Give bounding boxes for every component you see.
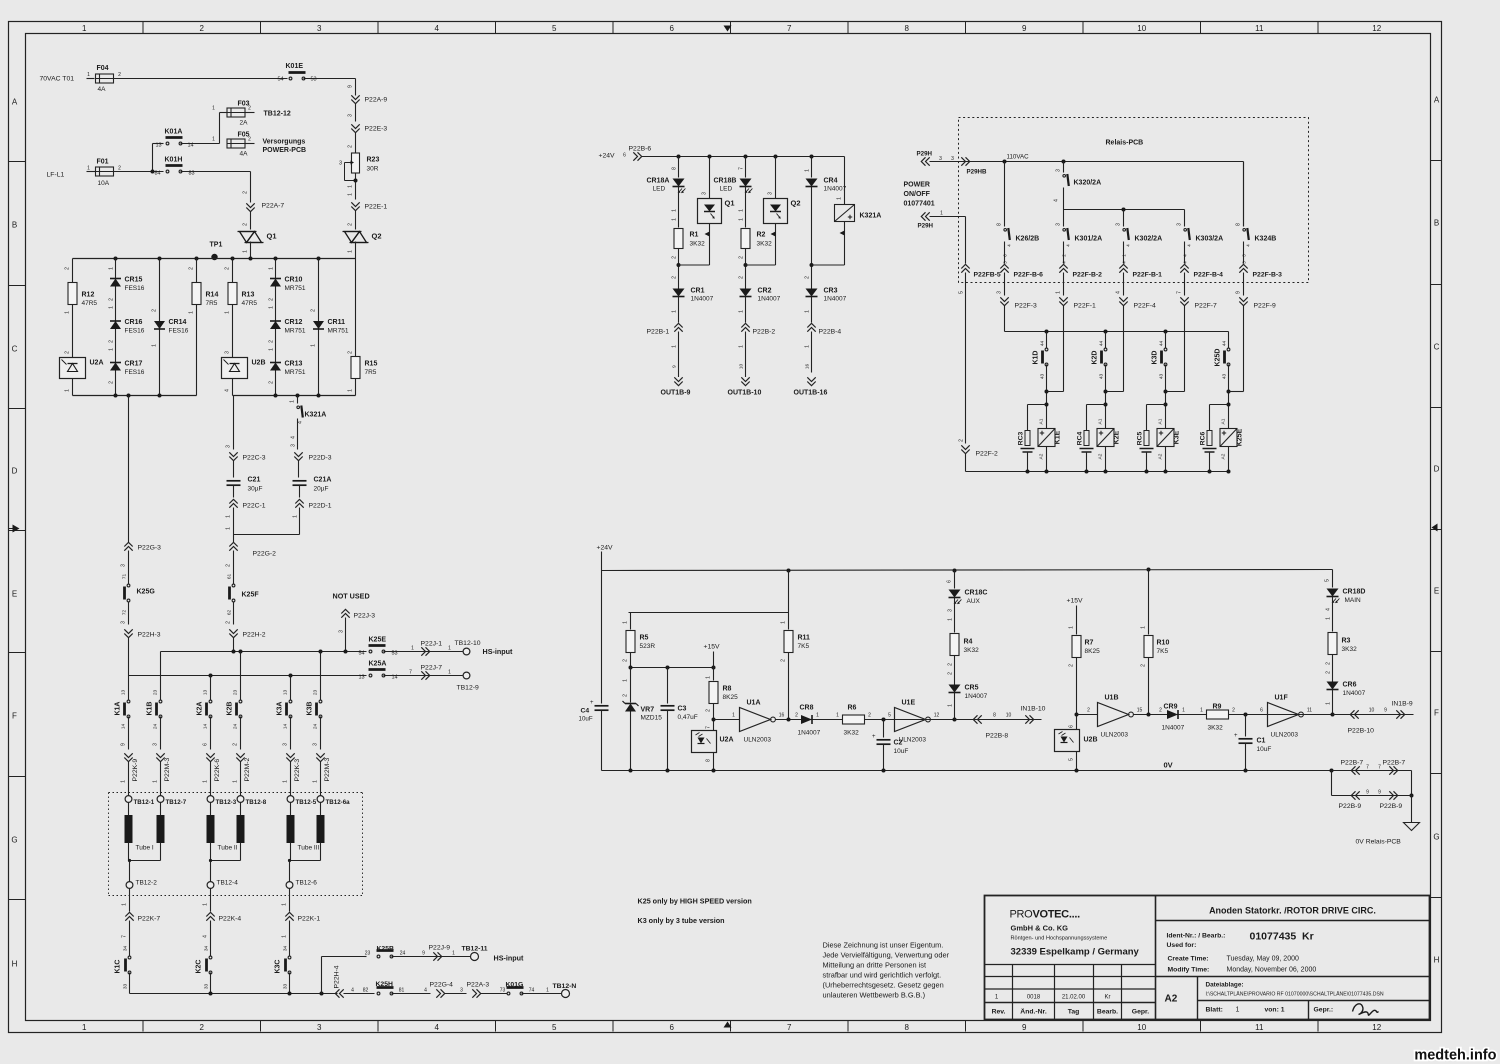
svg-text:43: 43 — [1159, 374, 1165, 380]
svg-text:CR3: CR3 — [824, 288, 838, 295]
svg-text:U1F: U1F — [1275, 695, 1289, 702]
wire riser K01A — [153, 143, 164, 145]
wire CR15 chain column — [115, 259, 117, 396]
terminal TB12-5 — [287, 796, 294, 803]
svg-text:Q1: Q1 — [725, 199, 735, 208]
wire P22F-4 down — [1123, 306, 1125, 392]
svg-text:P22F-B-2: P22F-B-2 — [1073, 272, 1103, 279]
svg-text:43: 43 — [1040, 374, 1046, 380]
svg-text:44: 44 — [1159, 341, 1165, 347]
svg-text:TB12-6a: TB12-6a — [326, 799, 351, 806]
svg-text:(Urheberrechtsgesetz. Gesetz g: (Urheberrechtsgesetz. Gesetz gegen — [823, 981, 944, 990]
svg-text:2: 2 — [959, 439, 965, 442]
contact K2C — [209, 959, 212, 971]
svg-text:Dateiablage:: Dateiablage: — [1206, 982, 1244, 989]
svg-text:7K5: 7K5 — [798, 643, 810, 650]
svg-text:12: 12 — [1372, 24, 1381, 33]
connector OUT1B-16 — [807, 377, 815, 381]
svg-text:2: 2 — [226, 564, 232, 567]
connector P22F-B-2 — [1059, 269, 1067, 273]
relay contact K302/2A — [1123, 210, 1125, 227]
svg-text:P22H-4: P22H-4 — [334, 965, 341, 988]
svg-text:MR751: MR751 — [285, 285, 306, 292]
svg-text:3: 3 — [283, 743, 289, 746]
svg-text:P22B-2: P22B-2 — [753, 329, 776, 336]
svg-text:P22B-7: P22B-7 — [1341, 760, 1364, 767]
wire K1D column — [1046, 332, 1048, 349]
svg-text:2: 2 — [248, 106, 251, 112]
svg-text:11: 11 — [1307, 708, 1312, 714]
svg-text:1: 1 — [448, 646, 451, 652]
svg-text:P22B-9: P22B-9 — [1339, 803, 1362, 810]
svg-text:32339 Espelkamp / Germany: 32339 Espelkamp / Germany — [1011, 947, 1140, 958]
svg-text:CR4: CR4 — [824, 178, 838, 185]
svg-text:P22J-7: P22J-7 — [421, 665, 443, 672]
connector P22F-B-3 — [1239, 269, 1247, 273]
svg-text:2: 2 — [348, 223, 354, 226]
wire P22F-7 down — [1184, 306, 1186, 392]
wire C21 bottom joining link — [233, 508, 235, 535]
svg-text:6: 6 — [203, 743, 209, 746]
connector P22A-9 — [351, 95, 359, 99]
connector P22K-6 — [206, 753, 214, 757]
svg-text:1: 1 — [122, 903, 128, 906]
wire K2A to connector — [210, 717, 212, 750]
svg-text:24: 24 — [400, 951, 406, 957]
svg-text:Anoden Statorkr. /ROTOR DRIVE: Anoden Statorkr. /ROTOR DRIVE CIRC. — [1209, 906, 1376, 916]
svg-text:1: 1 — [203, 780, 209, 783]
svg-text:1: 1 — [65, 389, 71, 392]
svg-text:4: 4 — [203, 935, 209, 938]
wire CR18A to R1 — [678, 187, 680, 228]
svg-text:P22B-9: P22B-9 — [1380, 803, 1403, 810]
resistor R3 — [1328, 633, 1337, 655]
svg-text:5: 5 — [888, 713, 891, 719]
svg-text:7: 7 — [787, 1023, 792, 1032]
svg-text:1: 1 — [836, 713, 839, 719]
svg-text:A2: A2 — [1158, 453, 1164, 459]
svg-text:K321A: K321A — [305, 412, 327, 419]
svg-text:2: 2 — [1069, 664, 1075, 667]
capacitor C2 — [883, 720, 885, 738]
svg-text:Blatt:: Blatt: — [1206, 1007, 1223, 1014]
svg-text:P22H-3: P22H-3 — [138, 632, 161, 639]
connector P22J-9 — [433, 952, 437, 960]
svg-text:C: C — [12, 345, 18, 354]
svg-text:ON/OFF: ON/OFF — [904, 191, 931, 198]
wire to TB12-2 — [129, 861, 131, 882]
wire R2 to junction — [745, 249, 747, 289]
svg-text:NOT USED: NOT USED — [333, 592, 370, 601]
svg-text:1: 1 — [109, 348, 115, 351]
svg-text:2: 2 — [65, 267, 71, 270]
svg-text:4: 4 — [291, 436, 297, 439]
wire K3B to connector — [320, 717, 322, 750]
svg-text:C1: C1 — [1257, 738, 1266, 745]
svg-text:33: 33 — [204, 984, 210, 990]
svg-text:30µF: 30µF — [248, 486, 263, 493]
connector P22FB-5 — [961, 269, 969, 273]
wire K3A to connector — [290, 717, 292, 750]
contact K1B — [159, 703, 162, 715]
svg-text:10: 10 — [1137, 1023, 1146, 1032]
svg-text:7: 7 — [1378, 765, 1381, 771]
svg-text:CR10: CR10 — [285, 277, 303, 284]
svg-text:4A: 4A — [240, 151, 249, 158]
tube section dotted separator top — [109, 792, 363, 794]
connector P22J-1 — [421, 647, 425, 655]
connector P22F-1 — [1063, 273, 1065, 296]
svg-text:1: 1 — [672, 209, 678, 212]
svg-text:A1: A1 — [1098, 418, 1104, 424]
wire K25E to TB12-10 — [384, 651, 463, 653]
svg-text:P29H: P29H — [918, 223, 934, 230]
svg-text:6: 6 — [670, 24, 675, 33]
svg-text:R12: R12 — [82, 292, 95, 299]
svg-text:P22D-1: P22D-1 — [309, 503, 332, 510]
svg-text:IN1B-10: IN1B-10 — [1021, 706, 1046, 713]
svg-text:0V: 0V — [1164, 761, 1173, 770]
svg-text:A2: A2 — [1221, 453, 1227, 459]
svg-text:P22M-2: P22M-2 — [244, 757, 251, 781]
svg-text:HS-input: HS-input — [483, 647, 514, 656]
svg-text:C4: C4 — [581, 708, 590, 715]
svg-text:3K32: 3K32 — [757, 241, 773, 248]
diode CR14 — [154, 321, 165, 329]
svg-text:2: 2 — [269, 340, 275, 343]
svg-text:U2A: U2A — [720, 737, 734, 744]
svg-text:4: 4 — [1116, 291, 1122, 294]
svg-text:3: 3 — [1056, 223, 1062, 226]
svg-text:K25G: K25G — [137, 589, 156, 596]
svg-text:U1A: U1A — [747, 700, 761, 707]
optotriac Q1 — [709, 157, 711, 199]
svg-text:I:\SCHALTPLÄNE\PROVARIO RF 010: I:\SCHALTPLÄNE\PROVARIO RF 01070000\SCHA… — [1206, 991, 1384, 998]
wire R5/R11 subrail — [788, 571, 790, 613]
wire P22K-6 to terminal — [210, 762, 212, 796]
svg-text:1: 1 — [203, 903, 209, 906]
resistor R13 — [228, 283, 237, 305]
svg-text:2: 2 — [948, 672, 954, 675]
svg-text:1: 1 — [948, 618, 954, 621]
svg-text:R1: R1 — [690, 232, 699, 239]
svg-text:K25E: K25E — [369, 637, 387, 644]
svg-text:44: 44 — [1040, 341, 1046, 347]
svg-text:10uF: 10uF — [1257, 746, 1272, 753]
wire F03 to TB12-12 — [245, 112, 255, 114]
tube section dotted left edge — [108, 793, 110, 896]
contact K2D — [1104, 351, 1107, 363]
svg-text:K3C: K3C — [275, 959, 282, 973]
svg-text:Rev.: Rev. — [992, 1009, 1006, 1016]
svg-text:C: C — [1434, 343, 1440, 352]
centering mark left — [13, 525, 20, 533]
connector P22D-1 — [295, 504, 303, 508]
svg-text:7: 7 — [706, 726, 712, 729]
svg-text:R8: R8 — [723, 686, 732, 693]
svg-text:CR18D: CR18D — [1343, 589, 1366, 596]
svg-text:R3: R3 — [1342, 638, 1351, 645]
wire K1A column — [128, 676, 130, 701]
svg-text:C21A: C21A — [314, 477, 332, 484]
wire K302/2A to connector — [1123, 242, 1125, 264]
svg-text:2: 2 — [243, 191, 249, 194]
connector P22B-7 pair — [1332, 770, 1412, 772]
snubber RC4 — [1087, 404, 1106, 406]
terminal TB12-6a — [317, 796, 324, 803]
svg-text:P22F-3: P22F-3 — [1015, 303, 1038, 310]
svg-text:P22F-B-3: P22F-B-3 — [1253, 272, 1283, 279]
svg-text:Tube I: Tube I — [136, 845, 154, 852]
wire K321A contact drop — [297, 396, 299, 404]
svg-text:1: 1 — [311, 344, 317, 347]
svg-text:47R5: 47R5 — [242, 300, 258, 307]
contact K1C — [128, 959, 131, 971]
svg-text:523R: 523R — [640, 643, 656, 650]
svg-text:3K32: 3K32 — [844, 730, 860, 737]
svg-text:1: 1 — [109, 267, 115, 270]
svg-text:1: 1 — [805, 169, 811, 172]
svg-text:K3D: K3D — [1152, 350, 1159, 364]
svg-text:K320/2A: K320/2A — [1074, 180, 1102, 187]
svg-text:P22K-4: P22K-4 — [219, 916, 242, 923]
snubber RC6 — [1210, 404, 1229, 406]
svg-text:8: 8 — [997, 223, 1003, 226]
svg-text:K2B: K2B — [227, 701, 234, 715]
svg-text:4: 4 — [351, 988, 354, 994]
centering mark top — [724, 26, 732, 32]
svg-text:POWER: POWER — [904, 182, 930, 189]
wire jog from connector — [1166, 391, 1185, 393]
svg-text:CR8: CR8 — [800, 705, 814, 712]
terminal TB12-1 — [125, 796, 132, 803]
thyristor U2B — [222, 358, 248, 379]
transformer winding Tube I left — [128, 803, 130, 816]
contact K25F — [232, 587, 235, 599]
svg-text:2: 2 — [118, 72, 121, 78]
svg-text:2: 2 — [1141, 664, 1147, 667]
svg-text:3: 3 — [226, 445, 232, 448]
svg-text:ULN2003: ULN2003 — [744, 737, 772, 744]
resistor R14 — [192, 283, 201, 305]
svg-text:4: 4 — [424, 988, 427, 994]
svg-text:K01A: K01A — [165, 129, 183, 136]
svg-text:P22F-B-1: P22F-B-1 — [1133, 272, 1163, 279]
wire K25D column — [1228, 332, 1230, 349]
svg-text:3: 3 — [153, 743, 159, 746]
svg-text:3K32: 3K32 — [1208, 725, 1224, 732]
svg-text:5: 5 — [959, 291, 965, 294]
svg-text:3: 3 — [339, 630, 345, 633]
svg-text:E: E — [1434, 587, 1439, 596]
svg-text:R6: R6 — [848, 705, 857, 712]
svg-text:TB12-6: TB12-6 — [296, 880, 318, 887]
relay contact K320/2A — [1063, 162, 1065, 173]
relay coil K321A — [844, 157, 846, 205]
svg-text:Bearb.: Bearb. — [1097, 1009, 1118, 1016]
svg-text:7R5: 7R5 — [206, 300, 218, 307]
wire P22C-3 to C21 — [233, 461, 235, 478]
wire jog from connector — [1106, 391, 1124, 393]
wire P22H-3 to bus2 — [128, 638, 130, 676]
svg-text:01077435 Kr: 01077435 Kr — [1250, 931, 1314, 943]
svg-text:1: 1 — [672, 310, 678, 313]
svg-text:F01: F01 — [97, 159, 109, 166]
wire K3D column — [1165, 332, 1167, 349]
svg-text:4: 4 — [1054, 199, 1060, 202]
svg-text:2A: 2A — [240, 120, 249, 127]
svg-text:TB12-7: TB12-7 — [166, 799, 187, 806]
svg-text:8K25: 8K25 — [1085, 648, 1101, 655]
connector P22K-1 — [285, 917, 293, 921]
svg-text:von: 1: von: 1 — [1265, 1007, 1285, 1014]
contact K2A — [209, 703, 212, 715]
wire TB12-6 to P22K-1 — [289, 889, 291, 912]
svg-text:12: 12 — [934, 713, 940, 719]
contact K3D — [1164, 351, 1167, 363]
terminal TB12-6 — [286, 882, 293, 889]
svg-text:3: 3 — [702, 192, 708, 195]
svg-text:G: G — [11, 836, 17, 845]
wire C21A to P22D-1 — [299, 486, 301, 498]
LED CR18A — [673, 179, 685, 187]
svg-text:HS-input: HS-input — [494, 954, 525, 963]
svg-text:2: 2 — [868, 713, 871, 719]
svg-text:A1: A1 — [1221, 418, 1227, 424]
svg-text:P22A-9: P22A-9 — [365, 97, 388, 104]
wire right rectifier bottom bus — [233, 395, 356, 397]
wire P22G-4 to P22A-3 — [445, 993, 467, 995]
svg-text:1: 1 — [1056, 291, 1062, 294]
svg-text:8: 8 — [993, 713, 996, 719]
wire CR18B column — [745, 157, 747, 178]
svg-text:84: 84 — [154, 171, 160, 177]
svg-text:K2C: K2C — [196, 959, 203, 973]
svg-text:1: 1 — [282, 935, 288, 938]
svg-text:1: 1 — [948, 704, 954, 707]
svg-text:1: 1 — [940, 211, 943, 217]
svg-text:P22F-2: P22F-2 — [976, 451, 999, 458]
svg-text:K2D: K2D — [1092, 350, 1099, 364]
wire P22E-1 to Q2 — [355, 211, 357, 230]
connector P22F-3 — [1004, 273, 1006, 296]
optocoupler U2B — [1055, 730, 1080, 752]
svg-text:54: 54 — [358, 651, 364, 657]
svg-text:24: 24 — [313, 724, 319, 730]
svg-text:3K32: 3K32 — [690, 241, 706, 248]
svg-text:K1E: K1E — [1055, 430, 1062, 444]
svg-text:K2A: K2A — [197, 701, 204, 715]
wire lower +24V rail — [602, 570, 1333, 571]
wire K3C to bottom bus — [289, 973, 291, 994]
svg-text:5: 5 — [1069, 758, 1075, 761]
svg-text:Tube III: Tube III — [298, 845, 320, 852]
wire Q1 opto output — [709, 224, 711, 266]
svg-text:74: 74 — [529, 988, 535, 994]
wire K1C to bottom bus — [129, 973, 131, 994]
svg-text:P22B-6: P22B-6 — [629, 146, 652, 153]
svg-text:+: + — [872, 734, 876, 740]
connector P22G-2 — [229, 547, 237, 551]
svg-text:3: 3 — [317, 1023, 322, 1032]
svg-text:U2A: U2A — [90, 360, 104, 367]
svg-text:F04: F04 — [97, 65, 109, 72]
contact K25D — [1227, 351, 1230, 363]
connector P22K-4 — [206, 917, 214, 921]
svg-text:D: D — [1434, 465, 1440, 474]
wire +24V rail — [642, 156, 845, 158]
diode CR1 — [673, 289, 685, 297]
connector P22H-4 — [340, 989, 344, 997]
connector IN1B-10 pair — [955, 719, 1042, 721]
svg-text:9: 9 — [1378, 790, 1381, 796]
svg-text:24: 24 — [153, 724, 159, 730]
diode CR15 — [110, 279, 121, 287]
connector P22G-3 — [124, 547, 132, 551]
svg-text:P22J-9: P22J-9 — [429, 945, 451, 952]
svg-text:P22D-3: P22D-3 — [309, 455, 332, 462]
svg-text:K303/2A: K303/2A — [1196, 236, 1224, 243]
svg-text:TB12-N: TB12-N — [553, 983, 577, 990]
capacitor C3 — [667, 668, 669, 704]
svg-text:CR18C: CR18C — [965, 590, 988, 597]
svg-text:2: 2 — [1326, 662, 1332, 665]
svg-text:11: 11 — [1255, 24, 1264, 33]
connector P22B-9 pair — [1332, 795, 1412, 797]
contact K3C — [288, 959, 291, 971]
svg-text:P22A-3: P22A-3 — [467, 982, 490, 989]
wire +15V node line — [631, 667, 714, 669]
svg-text:1: 1 — [448, 670, 451, 676]
svg-text:CR18A: CR18A — [647, 178, 670, 185]
wire P22G-2 to K25F — [233, 551, 235, 585]
svg-text:1: 1 — [739, 345, 745, 348]
svg-text:Tube II: Tube II — [218, 845, 238, 852]
svg-text:2: 2 — [226, 621, 232, 624]
svg-text:3: 3 — [339, 161, 342, 167]
svg-text:LED: LED — [653, 186, 666, 193]
wire U1A output line — [776, 719, 955, 721]
wire K01G to TB12-N — [522, 993, 562, 995]
svg-text:9: 9 — [121, 743, 127, 746]
svg-text:2: 2 — [1232, 708, 1235, 714]
LED CR18D column — [1332, 570, 1334, 588]
svg-text:1: 1 — [269, 267, 275, 270]
wire CR1 to P22B-1 — [678, 297, 680, 323]
wire Q1 to bus — [250, 242, 252, 259]
svg-text:R11: R11 — [798, 635, 811, 642]
svg-text:15: 15 — [1137, 708, 1143, 714]
svg-text:2: 2 — [739, 276, 745, 279]
svg-text:P22K-6: P22K-6 — [214, 759, 221, 782]
svg-text:9: 9 — [422, 951, 425, 957]
svg-text:Versorgungs: Versorgungs — [263, 139, 306, 146]
transformer winding Tube II left — [210, 803, 212, 816]
svg-text:2: 2 — [1326, 671, 1332, 674]
connector P22B-1 — [674, 328, 682, 332]
svg-text:3K32: 3K32 — [1342, 646, 1358, 653]
svg-text:K301/2A: K301/2A — [1075, 236, 1103, 243]
Relais-PCB boundary box — [959, 118, 1309, 283]
svg-text:2: 2 — [739, 256, 745, 259]
svg-text:8: 8 — [672, 167, 678, 170]
resistor R8 — [713, 668, 715, 681]
svg-text:13: 13 — [358, 675, 364, 681]
svg-text:ULN2003: ULN2003 — [1271, 732, 1299, 739]
svg-text:U1B: U1B — [1105, 695, 1119, 702]
svg-text:P22G-2: P22G-2 — [253, 551, 277, 558]
svg-text:3: 3 — [317, 24, 322, 33]
